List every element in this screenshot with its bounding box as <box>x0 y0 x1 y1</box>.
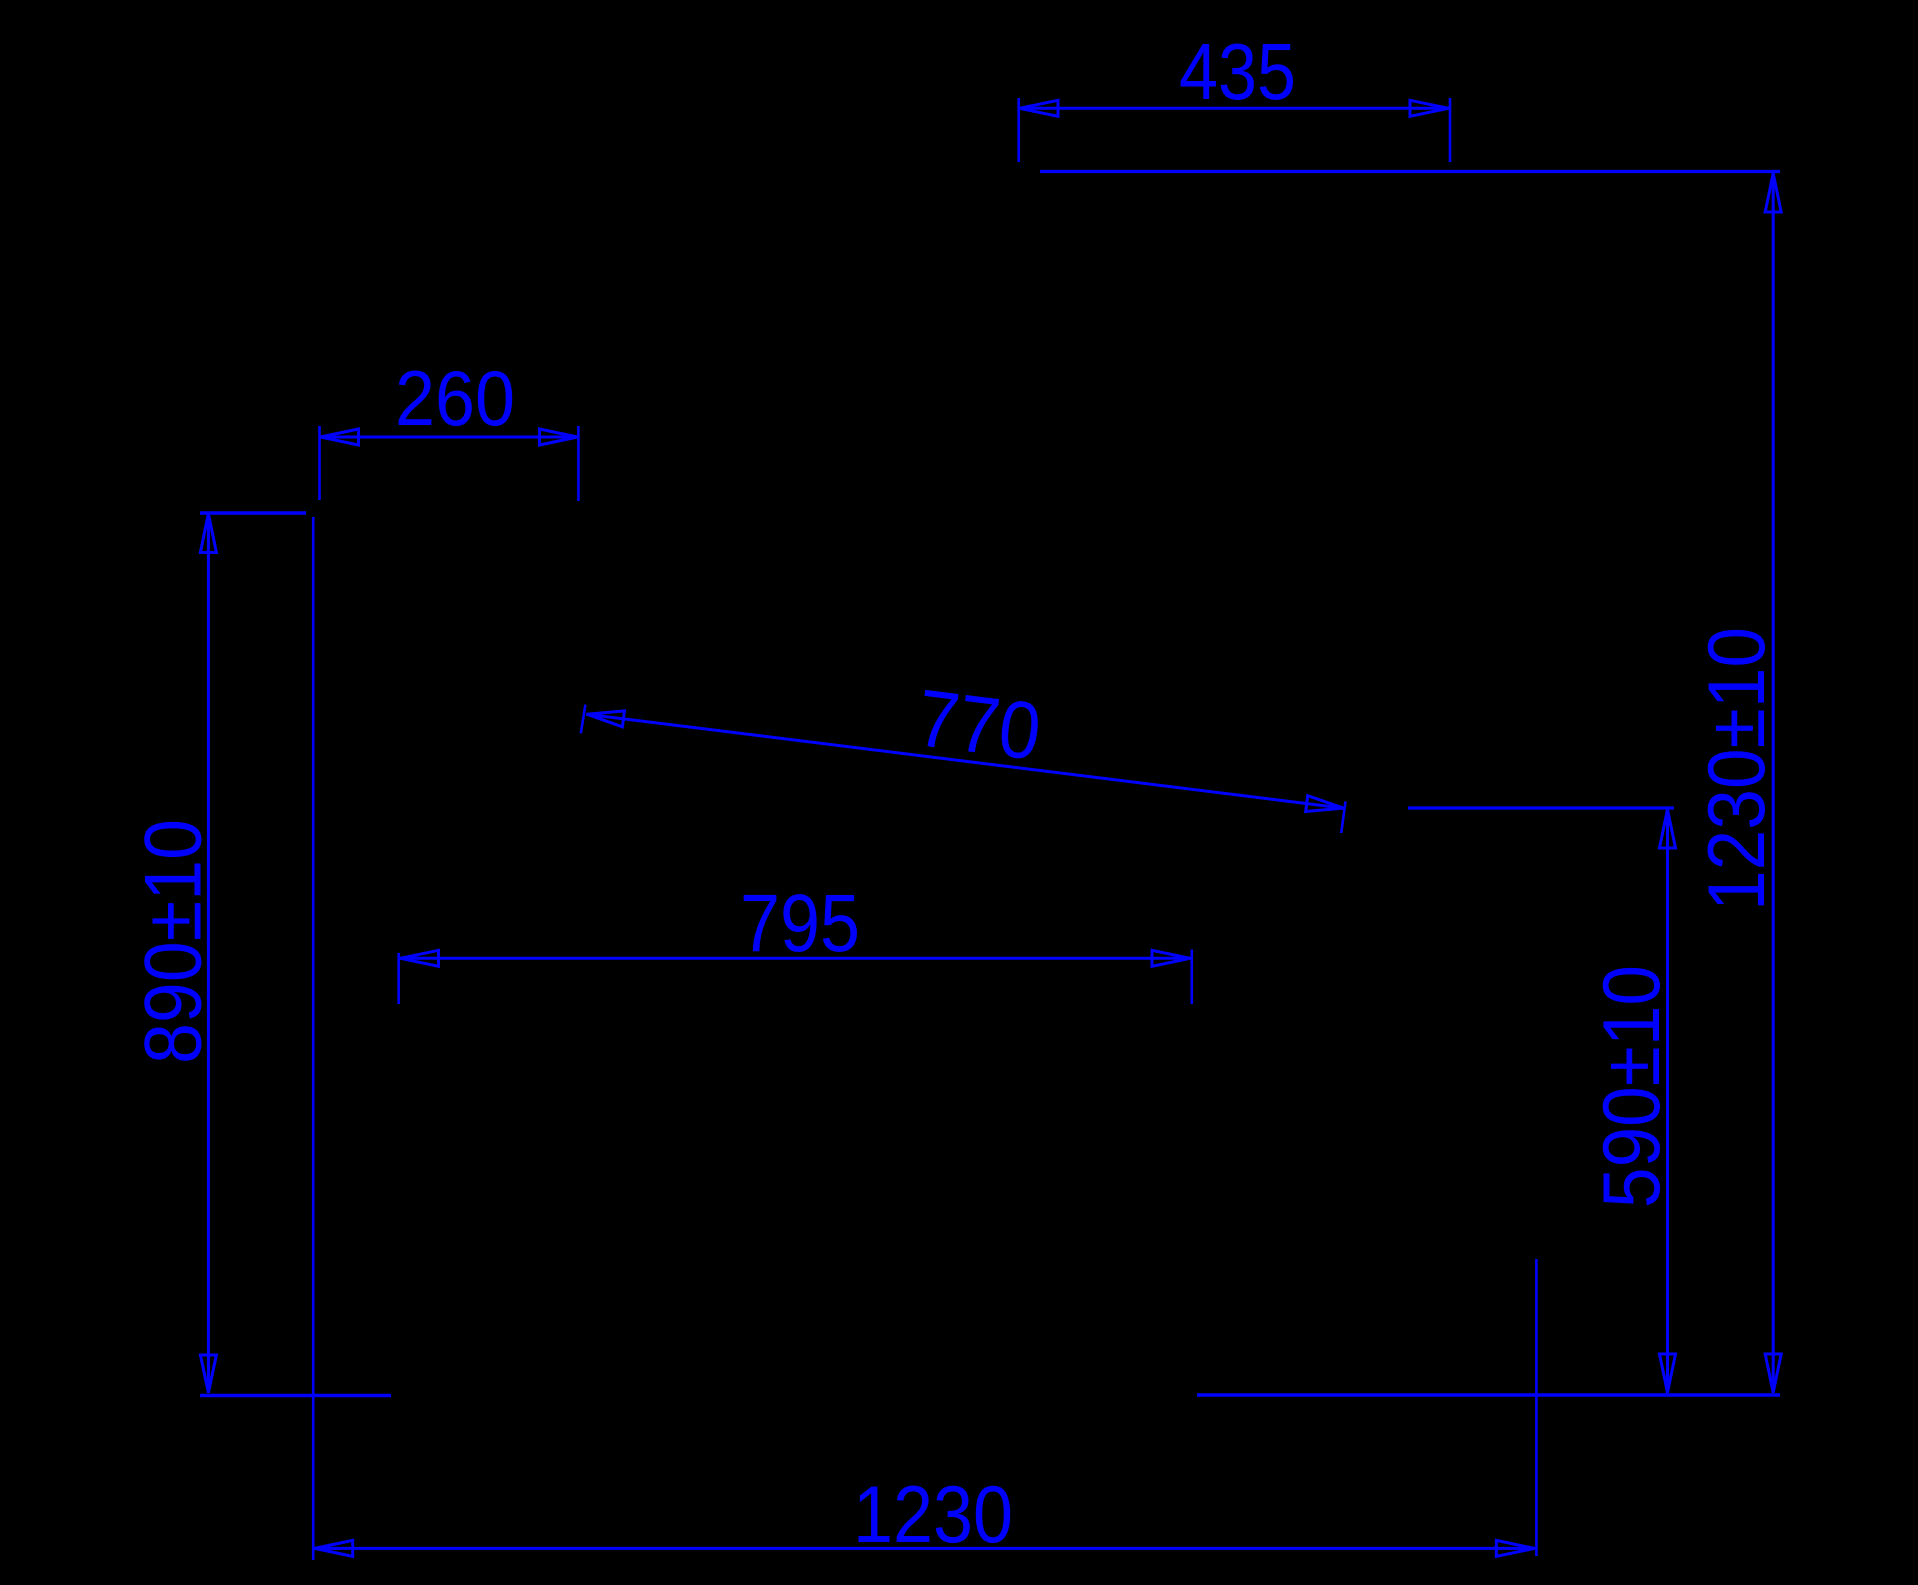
dim 795: left extension line <box>397 953 400 1004</box>
dim 770: dimension line (diagonal) <box>586 714 1344 808</box>
left long extension line <box>312 517 315 1560</box>
svg-text:590±10: 590±10 <box>1587 965 1677 1208</box>
dim 435: right arrow <box>1410 100 1449 116</box>
dim 890&#177;10: down arrow <box>200 1355 216 1393</box>
dim 1230 bottom: dimension line <box>314 1547 1535 1550</box>
svg-text:1230: 1230 <box>853 1470 1013 1560</box>
dim 590&#177;10: dimension line <box>1666 809 1669 1393</box>
dim 795: dimension line <box>400 957 1191 960</box>
dim 890&#177;10: dimension line <box>207 513 210 1393</box>
dim 890&#177;10: top reference line <box>200 511 306 514</box>
svg-text:890±10: 890±10 <box>129 819 219 1064</box>
dim 435: left arrow <box>1020 100 1059 116</box>
dim 770: right extension tick <box>1341 802 1345 834</box>
dim 770: left arrow <box>587 711 625 727</box>
baseline left segment <box>200 1394 391 1398</box>
dim 795: right arrow <box>1152 950 1190 966</box>
dim 260: left arrow <box>321 429 359 445</box>
baseline right segment <box>1197 1393 1780 1397</box>
dim 590&#177;10: top reference line <box>1408 806 1674 809</box>
svg-text:435: 435 <box>1179 27 1296 116</box>
dim 260: left extension line <box>318 426 321 500</box>
dim 1230 bottom: left arrow <box>315 1540 353 1556</box>
dim 1230&#177;10: up arrow <box>1765 174 1781 213</box>
dim 1230&#177;10: dimension line <box>1772 173 1775 1393</box>
dim 890&#177;10: up arrow <box>200 514 216 553</box>
svg-text:260: 260 <box>395 354 515 442</box>
dim 1230&#177;10: down arrow <box>1765 1354 1781 1393</box>
dim 435: left extension line <box>1017 98 1020 162</box>
dim 770: left extension tick <box>581 705 586 734</box>
right short extension line <box>1535 1259 1538 1556</box>
dim 435: right extension line <box>1449 98 1452 162</box>
dim 260: right extension line <box>577 426 580 501</box>
dim 770: right arrow <box>1306 796 1344 812</box>
dim 795: right extension line <box>1191 950 1194 1005</box>
svg-text:795: 795 <box>740 878 860 969</box>
top reference line <box>1040 170 1780 173</box>
dim 260: right arrow <box>540 429 578 445</box>
dim 435: dimension line <box>1019 107 1450 110</box>
dim 590&#177;10: down arrow <box>1660 1354 1676 1393</box>
svg-text:770: 770 <box>912 673 1045 778</box>
dim 590&#177;10: up arrow <box>1660 810 1676 849</box>
svg-text:1230±10: 1230±10 <box>1692 627 1782 911</box>
dim 1230 bottom: right arrow <box>1496 1540 1534 1556</box>
dim 260: dimension line <box>320 436 579 439</box>
dim 795: left arrow <box>401 950 439 966</box>
